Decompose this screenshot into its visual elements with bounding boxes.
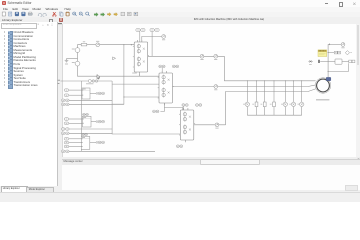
wire group1 lower buses (69, 99, 112, 101)
wire conv1 output (phase A) (148, 55, 225, 57)
wire source top (78, 45, 82, 48)
wire source bottom rail (78, 66, 160, 77)
voltage source Vs2 (72, 61, 80, 66)
tag below conv2 (153, 110, 156, 113)
wire vertical bus V2 (112, 45, 124, 104)
current probe Ia (96, 41, 100, 47)
wire to converter 1 (100, 44, 134, 46)
wire between sources (77, 53, 79, 62)
filter bottom rail (247, 114, 301, 116)
search row (1, 23, 37, 29)
wire rail C (226, 89, 316, 125)
title bar (0, 0, 360, 7)
converter IMC input stage (133, 40, 149, 74)
wire (87, 44, 96, 46)
probe Vc (215, 123, 219, 129)
converter inverter (179, 108, 195, 142)
tree (4, 31, 5, 33)
wire gate tag (151, 32, 153, 57)
tag pills conv1 (136, 29, 140, 32)
wire to speed tags (328, 52, 334, 54)
wire vertical bus V1 (112, 81, 180, 134)
wire to converter 2 (124, 96, 159, 98)
note (yellow annotation) (318, 50, 327, 57)
wire stub conv3 tags (183, 106, 185, 110)
wire conv3 output (phase C) (194, 124, 226, 126)
canvas (62, 24, 357, 158)
wire mech row (320, 60, 335, 62)
mouse cursor (97, 75, 100, 80)
wire stub conv1 tag (139, 32, 141, 43)
wire control bus vertical (81, 81, 83, 151)
probe Vb (214, 85, 218, 91)
wire conv2 output (phase B) (173, 85, 316, 87)
probe wm (341, 43, 345, 49)
converter IMC output stage (158, 71, 174, 105)
encoder block (335, 59, 342, 64)
left panel body (0, 22, 58, 186)
menu bar (0, 7, 360, 12)
left panel header row + canvas tab bar (0, 17, 360, 25)
subsystem control logic 3 (61, 137, 104, 153)
wire conv1 bottom stub (139, 74, 141, 76)
subsystem control logic 1 (61, 88, 104, 106)
voltage source Vs1 (72, 48, 80, 53)
wire to converter 2 upper (112, 83, 159, 85)
wire group3 lower bus (69, 150, 155, 152)
wire conv1 top pin to probe (142, 36, 162, 42)
inductor La (81, 41, 87, 46)
wire L-branch right (328, 63, 348, 71)
message center (62, 159, 360, 167)
wire encoder out (342, 60, 349, 62)
probe Va (214, 54, 218, 60)
subsystem control logic 2 (61, 116, 104, 134)
mech port (318, 60, 319, 63)
probe Vdc (162, 35, 166, 41)
wire group2 lower buses (69, 128, 112, 130)
tag below conv3 (176, 145, 179, 148)
filter bank (243, 80, 249, 115)
induction machine IM (315, 77, 331, 100)
wire dc link conv2-conv3 (160, 103, 164, 111)
probe Ia2 (200, 54, 204, 60)
tiny text at canvas corner (56, 23, 62, 24)
canvas vertical scrollbar (356, 24, 360, 158)
ground gnd (65, 59, 78, 65)
torque source Tm (308, 60, 312, 65)
wire stub conv2 tags (161, 68, 163, 73)
node junction (123, 44, 124, 45)
wire ss bus (61, 80, 113, 82)
wire rail A (224, 56, 315, 81)
demux wedge (113, 57, 116, 60)
toolbar (0, 12, 360, 18)
typhoon tab icon (59, 18, 63, 22)
mux diamond (345, 51, 349, 55)
bottom tabs of left panel (0, 186, 62, 192)
wire to wm probe (328, 43, 341, 45)
status bar (0, 192, 360, 204)
wire machine top (327, 44, 329, 77)
